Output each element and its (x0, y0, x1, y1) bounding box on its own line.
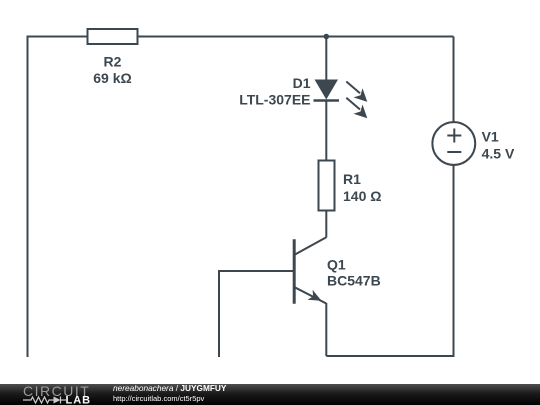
transistor Q1 (294, 237, 326, 304)
svg-text:Q1: Q1 (327, 257, 346, 273)
svg-text:R1: R1 (343, 171, 361, 187)
svg-text:V1: V1 (482, 129, 499, 145)
footer bar (0, 384, 540, 405)
schematic url (113, 394, 204, 403)
svg-text:BC547B: BC547B (327, 273, 381, 289)
wire emitter (325, 303, 327, 356)
svg-text:LAB: LAB (66, 395, 92, 405)
svg-text:4.5 V: 4.5 V (482, 146, 515, 162)
voltage source V1 (432, 122, 475, 165)
svg-text:69 kΩ: 69 kΩ (93, 70, 131, 86)
D1 light arrow 2 (346, 98, 367, 118)
svg-text:D1: D1 (293, 75, 311, 91)
wire top-left (28, 36, 89, 38)
wire left (27, 36, 29, 358)
LED D1 (314, 80, 340, 101)
wire base (219, 271, 294, 357)
CircuitLab logo (0, 384, 110, 405)
wire right upper (453, 37, 455, 123)
resistor R1 (319, 161, 335, 211)
wire R1 to collector (325, 211, 327, 238)
wire top (137, 36, 454, 38)
wire anode (325, 37, 327, 81)
svg-text:140 Ω: 140 Ω (343, 188, 381, 204)
author credit (113, 383, 226, 404)
D1 light arrow 1 (346, 82, 367, 102)
wire bottom (326, 355, 453, 357)
resistor R2 (88, 29, 138, 44)
svg-text:R2: R2 (104, 54, 122, 70)
wire LED to R1 (325, 101, 327, 162)
svg-text:LTL-307EE: LTL-307EE (239, 91, 310, 107)
node junction (324, 34, 330, 40)
wire right lower (453, 165, 455, 357)
